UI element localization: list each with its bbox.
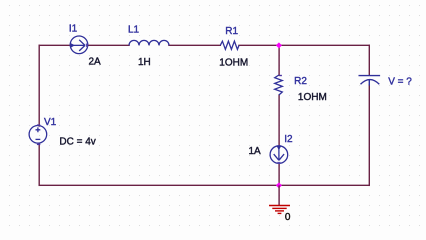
wire I2 to bottom node	[278, 163, 280, 185]
capacitor (V = ?)	[359, 76, 381, 86]
wire I1 to L1	[88, 44, 129, 46]
V1 top pin marker	[37, 124, 40, 126]
svg-text:2A: 2A	[89, 56, 102, 67]
resistor R2	[275, 75, 283, 95]
current source I2	[270, 146, 288, 164]
wire R1 to top-right corner via node	[239, 44, 369, 46]
wire bottom	[39, 184, 369, 186]
node junction bottom	[276, 182, 282, 188]
I2 bottom pin marker	[277, 162, 280, 164]
inductor L1	[129, 40, 169, 45]
resistor R1	[220, 41, 239, 49]
wire right side lower (capacitor to bottom)	[368, 85, 370, 185]
I1 right pin marker	[86, 44, 88, 47]
svg-text:I2: I2	[284, 134, 293, 145]
svg-text:DC = 4v: DC = 4v	[59, 137, 95, 148]
voltage source V1	[29, 126, 47, 144]
I2 top pin marker	[277, 146, 282, 150]
wire left side lower (V1 to bottom)	[38, 143, 40, 185]
wire R2 to I2	[278, 95, 280, 146]
current source I1	[70, 36, 88, 54]
wire node to R2	[278, 45, 280, 75]
ground stub	[278, 185, 280, 205]
I1 left pin marker	[71, 43, 75, 48]
svg-text:1H: 1H	[138, 57, 151, 68]
svg-text:0: 0	[285, 212, 291, 223]
node junction top	[276, 42, 282, 48]
svg-text:V1: V1	[44, 117, 57, 128]
wire L1 to R1	[169, 44, 220, 46]
svg-text:1A: 1A	[249, 146, 262, 157]
ground symbol	[269, 206, 290, 214]
svg-text:R1: R1	[225, 26, 238, 37]
svg-text:R2: R2	[294, 76, 307, 87]
svg-text:1OHM: 1OHM	[219, 57, 248, 68]
R2 top pin marker	[279, 75, 282, 77]
svg-text:L1: L1	[128, 24, 140, 35]
svg-text:1OHM: 1OHM	[298, 92, 327, 103]
svg-text:V = ?: V = ?	[388, 76, 412, 87]
svg-text:I1: I1	[69, 23, 78, 34]
wire left side upper (corner to V1)	[38, 45, 40, 126]
wire top-left corner to I1	[39, 44, 70, 46]
V1 bottom pin marker	[37, 143, 40, 145]
wire right side upper (corner to capacitor)	[368, 45, 370, 75]
